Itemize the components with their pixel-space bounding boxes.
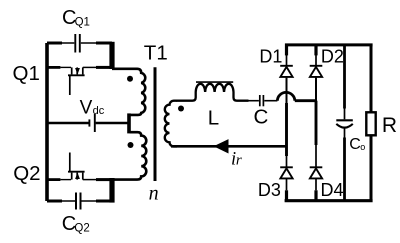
svg-text:D4: D4 (321, 180, 344, 200)
node B bar (109, 178, 114, 203)
label CQ2 (62, 213, 90, 235)
svg-text:Q2: Q2 (74, 222, 89, 234)
svg-text:D3: D3 (258, 180, 281, 200)
svg-text:Q1: Q1 (75, 16, 90, 28)
ir arrowhead (214, 139, 229, 153)
svg-text:r: r (236, 153, 242, 169)
diode D2 (310, 66, 323, 77)
svg-text:V: V (80, 97, 93, 118)
label ir (231, 150, 242, 170)
transformer T1 primary bottom winding (112, 132, 146, 179)
diode D4 (310, 167, 323, 178)
transformer T1 primary top winding (112, 69, 145, 115)
wire hop over left leg (277, 92, 294, 100)
diode D1 (280, 66, 293, 77)
svg-text:Q1: Q1 (13, 62, 40, 85)
node A bar (109, 42, 114, 69)
svg-text:C: C (254, 106, 269, 129)
wire hop to right leg (295, 99, 317, 102)
inductor L (177, 82, 259, 101)
wire: left rail (45, 43, 49, 201)
node: primary center junction bar (127, 113, 131, 133)
svg-text:C: C (349, 136, 361, 153)
svg-text:n: n (149, 183, 159, 205)
resistor R (366, 45, 375, 201)
svg-text:D2: D2 (321, 46, 344, 66)
svg-text:D1: D1 (259, 46, 282, 66)
capacitor CQ1 (47, 34, 112, 53)
transistor Q2 (47, 153, 112, 180)
diode D3 (280, 167, 293, 178)
svg-text:R: R (382, 114, 397, 137)
svg-text:dc: dc (93, 105, 105, 117)
svg-text:T1: T1 (144, 41, 168, 64)
label Vdc (80, 97, 105, 118)
wire C to bridge (264, 100, 277, 102)
label Co (349, 136, 365, 153)
transistor Q1 (47, 67, 112, 95)
primary dot top (127, 76, 133, 82)
transformer secondary winding (165, 101, 177, 147)
capacitor Co (336, 45, 353, 201)
label CQ1 (62, 7, 90, 29)
svg-text:Q2: Q2 (13, 162, 40, 185)
wire: bridge right leg (314, 44, 317, 202)
wire: bridge bottom rail (285, 199, 373, 202)
wire: bridge left leg (285, 44, 288, 202)
svg-text:o: o (360, 142, 365, 152)
battery Vdc (47, 114, 128, 132)
primary dot bottom (128, 142, 134, 148)
capacitor CQ2 (47, 193, 112, 210)
svg-text:L: L (208, 106, 219, 129)
capacitor C (260, 95, 264, 106)
transformer core (154, 67, 157, 181)
wire ir return (171, 145, 286, 148)
secondary dot (178, 106, 184, 112)
wire: bridge top rail (285, 43, 373, 46)
